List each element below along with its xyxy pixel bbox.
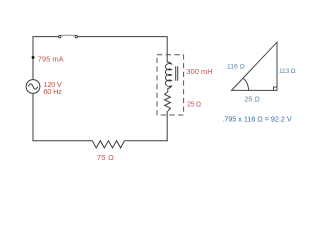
- svg-text:60 Hz: 60 Hz: [43, 87, 62, 96]
- svg-text:113 Ω: 113 Ω: [279, 68, 296, 75]
- svg-text:75 Ω: 75 Ω: [97, 153, 114, 162]
- wire top-left segment: [33, 37, 58, 80]
- right angle marker: [274, 87, 278, 90]
- svg-text:300 mH: 300 mH: [186, 67, 212, 76]
- inductor L1 coil: [165, 62, 171, 88]
- AC source V1: [26, 80, 40, 94]
- wire left lower: [32, 93, 34, 141]
- angle arc: [243, 78, 249, 90]
- svg-text:25 Ω: 25 Ω: [244, 95, 260, 104]
- resistor R1 75 ohm: [92, 141, 124, 148]
- switch S1: [59, 35, 78, 38]
- inductor core lines: [176, 66, 178, 81]
- impedance triangle: [232, 42, 278, 90]
- resistor R2 25 ohm: [165, 92, 171, 111]
- wire bottom-right: [125, 140, 168, 142]
- wire coil-to-resistor: [167, 88, 169, 92]
- wire top-right segment: [78, 37, 168, 63]
- svg-text:.795 x 116 Ω = 92.2 V: .795 x 116 Ω = 92.2 V: [222, 115, 292, 124]
- svg-text:795 mA: 795 mA: [38, 54, 64, 63]
- wire right lower: [166, 111, 168, 141]
- svg-text:25 Ω: 25 Ω: [187, 101, 201, 108]
- wire bottom-left: [33, 140, 93, 142]
- current arrow dot: [32, 56, 35, 59]
- svg-text:116 Ω: 116 Ω: [227, 64, 245, 71]
- dashed box around L and R: [157, 55, 184, 115]
